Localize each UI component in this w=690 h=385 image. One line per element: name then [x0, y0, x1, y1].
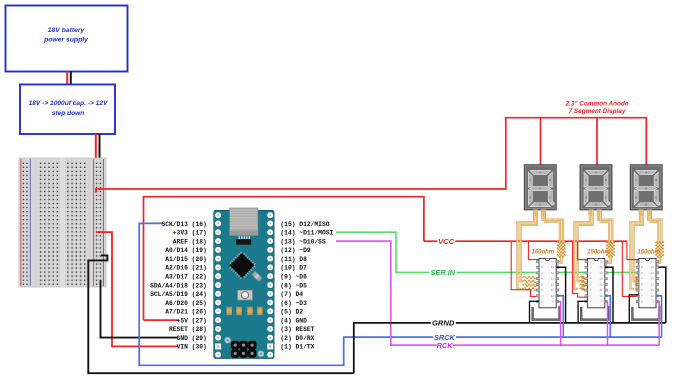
- svg-text:step down: step down: [52, 110, 85, 117]
- svg-text:(4) GND: (4) GND: [280, 317, 307, 324]
- wire magenta D10 RCK: [336, 241, 437, 345]
- breadboard hole grid: [23, 163, 101, 285]
- svg-text:11: 11: [651, 289, 655, 292]
- resistor network RN2 150ohm: [579, 276, 587, 279]
- svg-text:AREF (18): AREF (18): [173, 238, 207, 245]
- magenta RCK wire U1: [556, 302, 560, 346]
- wire blue D13 SRCK: [139, 223, 433, 365]
- blue SRCK wire U2: [605, 296, 611, 337]
- Arduino USB connector: [230, 208, 258, 235]
- svg-text:A0/D14 (19): A0/D14 (19): [165, 247, 207, 254]
- red drop to display DS3: [645, 117, 647, 165]
- svg-text:D: D: [645, 203, 647, 207]
- svg-text:SER IN: SER IN: [430, 268, 455, 277]
- RCK bus: [453, 344, 660, 346]
- black ground wires U3: [629, 295, 639, 322]
- svg-text:VCC: VCC: [438, 237, 455, 246]
- magenta RCK wire U2: [605, 302, 608, 346]
- wire red +5V to VCC rail: [144, 197, 424, 320]
- display DS1 decimal point: [551, 202, 554, 205]
- LEDs row: [226, 307, 232, 315]
- red VCC feed wires to U3: [622, 241, 639, 296]
- svg-text:A: A: [645, 171, 647, 175]
- svg-text:(6) ~D3: (6) ~D3: [280, 300, 307, 307]
- 7-segment display DS3: [630, 165, 662, 210]
- display DS2 decimal point: [607, 202, 610, 205]
- breadboard left power rail lines: [20, 159, 22, 286]
- svg-text:E: E: [529, 195, 531, 199]
- svg-text:16: 16: [651, 261, 655, 264]
- svg-text:12: 12: [651, 283, 655, 286]
- svg-text:GRND: GRND: [432, 319, 455, 328]
- red VCC feed wires to U1: [511, 241, 539, 296]
- svg-text:12: 12: [599, 283, 603, 286]
- svg-text:A3/D17 (22): A3/D17 (22): [165, 273, 207, 280]
- svg-text:150ohm: 150ohm: [637, 249, 660, 255]
- svg-text:C: C: [655, 195, 657, 199]
- svg-text:A2/D16 (21): A2/D16 (21): [165, 265, 207, 272]
- svg-text:(11) D8: (11) D8: [280, 256, 307, 263]
- USB solder pins: [239, 236, 240, 239]
- svg-text:power supply: power supply: [43, 36, 89, 43]
- ICSP header: [231, 341, 239, 349]
- svg-text:+5V (27): +5V (27): [177, 317, 207, 324]
- wire black breadboard to GND pin29: [101, 280, 178, 337]
- VCC rail: [424, 240, 437, 242]
- svg-text:B: B: [605, 178, 607, 182]
- svg-text:14: 14: [551, 272, 555, 275]
- blue SRCK wire U1: [556, 296, 563, 337]
- svg-text:G: G: [645, 187, 647, 191]
- svg-text:G: G: [595, 187, 597, 191]
- red VCC feed wires to U2: [573, 241, 588, 297]
- wire black breadboard to ground bus: [88, 255, 354, 373]
- breadboard right power rail lines: [93, 159, 95, 286]
- wire black stepdown to breadboard: [99, 134, 101, 168]
- svg-text:18V -> 1000uf cap. -> 12V: 18V -> 1000uf cap. -> 12V: [29, 100, 108, 107]
- svg-text:VIN (30): VIN (30): [177, 344, 207, 351]
- display DS3 leads / tan wiring: [639, 210, 643, 216]
- svg-text:(7) D4: (7) D4: [280, 291, 303, 298]
- svg-text:RCK: RCK: [437, 341, 454, 350]
- svg-text:13: 13: [551, 278, 555, 281]
- svg-text:15: 15: [599, 266, 603, 269]
- svg-text:A6/D20 (25): A6/D20 (25): [165, 300, 207, 307]
- Arduino Nano U0 board: [214, 211, 274, 359]
- via pads: [225, 337, 231, 343]
- black ground wires U2: [605, 267, 613, 323]
- svg-text:(13) ~D10/SS: (13) ~D10/SS: [280, 238, 326, 245]
- display DS1 leads / tan wiring: [533, 210, 537, 216]
- wire red battery to stepdown: [66, 72, 68, 85]
- wire red breadboard to display bus: [96, 118, 506, 193]
- svg-text:13: 13: [651, 278, 655, 281]
- red display supply bus: [505, 117, 646, 119]
- red drop to display DS2: [596, 117, 598, 165]
- SRCK bus: [456, 336, 662, 338]
- svg-text:A7/D21 (26): A7/D21 (26): [165, 309, 207, 316]
- svg-text:SCL/A5/D19 (24): SCL/A5/D19 (24): [150, 291, 207, 298]
- magenta RCK wire U3: [656, 302, 659, 346]
- svg-text:E: E: [585, 195, 587, 199]
- 7-segment display DS1: [524, 165, 556, 210]
- svg-text:18V battery: 18V battery: [48, 27, 86, 34]
- svg-text:(10) D7: (10) D7: [280, 265, 307, 272]
- shift register IC U1: [539, 259, 556, 308]
- svg-text:G: G: [539, 187, 541, 191]
- svg-text:D: D: [595, 203, 597, 207]
- svg-text:10: 10: [551, 295, 555, 298]
- svg-text:RESET (28): RESET (28): [169, 326, 207, 333]
- svg-text:A: A: [539, 171, 541, 175]
- wire red stepdown to breadboard: [95, 134, 97, 165]
- pin pads: [215, 221, 221, 227]
- svg-text:150ohm: 150ohm: [587, 249, 610, 255]
- svg-text:B: B: [549, 178, 551, 182]
- wire black ground bus up to U3: [656, 267, 666, 323]
- svg-text:(15) D12/MISO: (15) D12/MISO: [280, 221, 329, 228]
- ground bus GRND: [354, 323, 431, 373]
- resistor network RN1 150ohm: [522, 276, 538, 279]
- display DS3 decimal point: [657, 202, 660, 205]
- svg-text:7 Segment Display: 7 Segment Display: [569, 108, 626, 115]
- svg-text:GND (29): GND (29): [177, 335, 207, 342]
- 7-segment display DS2: [580, 165, 612, 210]
- svg-text:(3) RESET: (3) RESET: [280, 326, 314, 333]
- svg-text:E: E: [635, 195, 637, 199]
- svg-text:16: 16: [599, 261, 603, 264]
- red drop to display DS1: [540, 117, 542, 165]
- svg-text:(5) D2: (5) D2: [280, 309, 303, 316]
- resistor network RN3 150ohm: [635, 276, 638, 279]
- svg-text:(1) D1/TX: (1) D1/TX: [280, 344, 314, 351]
- svg-text:12: 12: [551, 283, 555, 286]
- svg-text:A1/D15 (20): A1/D15 (20): [165, 256, 207, 263]
- svg-text:SDA/A4/D18 (23): SDA/A4/D18 (23): [150, 282, 207, 289]
- svg-text:16: 16: [551, 261, 555, 264]
- breadboard: [19, 158, 106, 287]
- svg-text:15: 15: [551, 266, 555, 269]
- wire black battery to stepdown: [70, 72, 72, 85]
- svg-text:10: 10: [599, 295, 603, 298]
- svg-text:(8) ~D5: (8) ~D5: [280, 282, 307, 289]
- svg-text:(2) D0/RX: (2) D0/RX: [280, 335, 314, 342]
- SER IN bus: [457, 271, 639, 273]
- svg-text:2.3" Common Anode: 2.3" Common Anode: [565, 100, 629, 107]
- svg-text:B: B: [655, 178, 657, 182]
- svg-text:11: 11: [599, 289, 603, 292]
- svg-text:14: 14: [651, 272, 655, 275]
- svg-text:(12) ~D9: (12) ~D9: [280, 247, 310, 254]
- svg-text:D: D: [539, 203, 541, 207]
- svg-text:14: 14: [599, 272, 603, 275]
- svg-text:13: 13: [599, 278, 603, 281]
- small passive pair: [252, 271, 262, 281]
- svg-text:C: C: [549, 195, 551, 199]
- black ground wires U1: [556, 267, 565, 323]
- svg-text:15: 15: [651, 266, 655, 269]
- blue SRCK wire U3: [656, 296, 662, 337]
- shift register IC U3: [639, 259, 656, 308]
- svg-text:10: 10: [651, 295, 655, 298]
- wire red breadboard to VIN: [96, 232, 178, 346]
- shift register IC U2: [588, 259, 605, 308]
- reset button: [238, 290, 253, 300]
- svg-text:(9) ~D6: (9) ~D6: [280, 273, 307, 280]
- svg-text:150ohm: 150ohm: [531, 249, 554, 255]
- step-down box B2: [20, 85, 115, 135]
- battery box B1: [6, 6, 128, 72]
- wire green D11 serial data: [336, 232, 429, 272]
- svg-text:11: 11: [551, 289, 555, 292]
- MCU chip (rotated QFP): [226, 250, 257, 281]
- display DS2 leads / tan wiring: [589, 210, 593, 216]
- svg-text:SCK/D13 (16): SCK/D13 (16): [161, 221, 206, 228]
- svg-text:C: C: [605, 195, 607, 199]
- crystal component: [236, 239, 251, 244]
- svg-text:(14) ~D11/MOSI: (14) ~D11/MOSI: [280, 230, 333, 237]
- svg-text:+3V3 (17): +3V3 (17): [173, 230, 207, 237]
- svg-text:A: A: [595, 171, 597, 175]
